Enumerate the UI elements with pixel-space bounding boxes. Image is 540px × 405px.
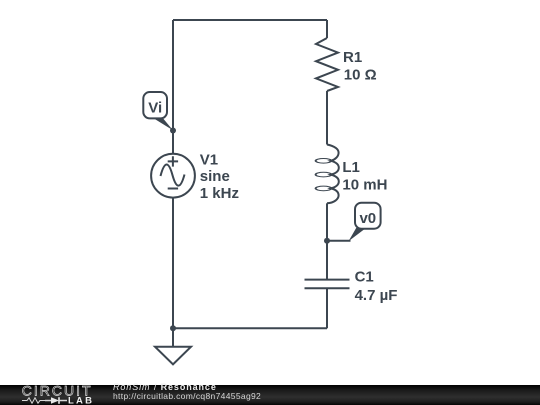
svg-text:C1: C1 [355,269,374,286]
svg-text:10 Ω: 10 Ω [344,66,377,83]
svg-text:L1: L1 [342,159,360,176]
node Vi label flag [143,92,173,130]
svg-text:4.7 µF: 4.7 µF [355,287,398,304]
capacitor C1 [305,280,350,289]
svg-text:LAB: LAB [68,395,94,405]
svg-text:R1: R1 [343,49,362,66]
svg-text:v0: v0 [359,210,376,227]
svg-text:1 kHz: 1 kHz [200,185,239,202]
wire resistor top lead [326,20,328,38]
resistor R1 [316,38,338,91]
wire capacitor bottom lead [326,288,328,328]
svg-text:Vi: Vi [148,99,162,116]
node Vi dot [170,128,176,134]
svg-text:sine: sine [200,168,230,185]
footer text [113,383,261,401]
wire bottom horizontal [173,327,327,329]
logo resistor zigzag [22,398,45,403]
wire left vertical (top node to source) [172,20,174,154]
svg-text:10 mH: 10 mH [342,176,387,193]
wire left vertical (source to bottom) [172,198,174,329]
wire ground stub [172,328,174,346]
logo diode [51,397,59,404]
voltage source V1 [151,154,195,198]
CircuitLab logo [0,385,95,405]
wire top horizontal [173,19,327,21]
inductor L1 [316,145,339,204]
node v0 dot [324,238,330,244]
node v0 label flag [349,203,381,242]
wire inductor to capacitor [326,203,328,279]
ground [155,347,191,365]
footer bar [0,385,540,405]
wire v0 stub [327,240,351,242]
wire resistor to inductor [326,91,328,145]
node ground junction dot [170,325,176,331]
svg-text:V1: V1 [200,151,218,168]
